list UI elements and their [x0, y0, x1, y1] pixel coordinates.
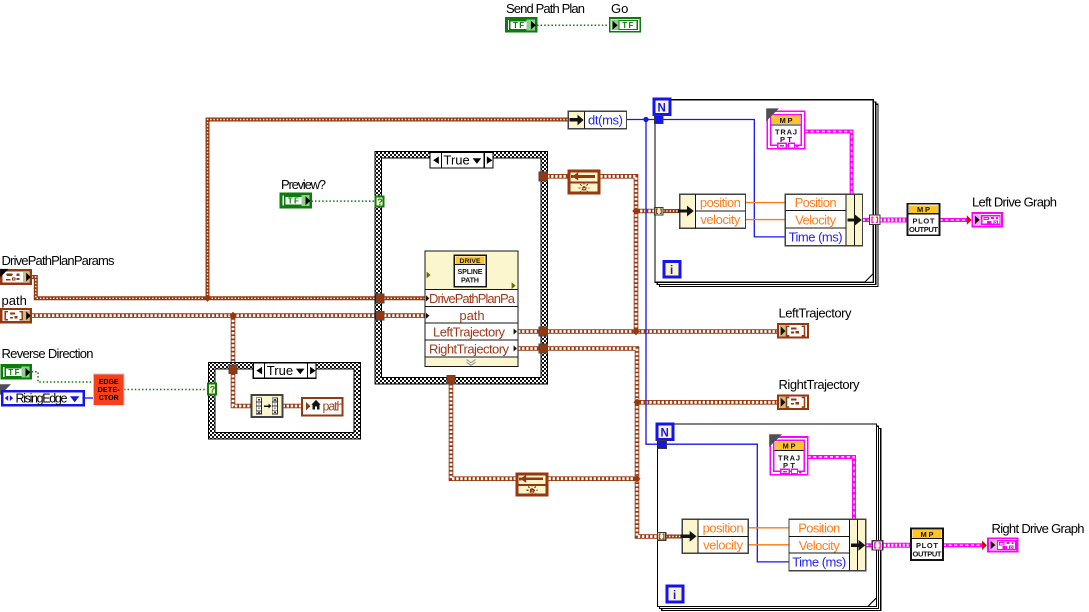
wire arrowhead at Right Drive Graph — [982, 541, 987, 551]
wire array of cluster top loop to PLOT OUTPUT (pink hatched) — [880, 218, 908, 223]
wire boolean dotted SendPathPlan to Go — [537, 24, 609, 26]
tunnel auto-index left (top loop) — [655, 207, 663, 215]
case selector terminal ? (small) — [208, 384, 216, 395]
svg-text:PATH: PATH — [461, 276, 479, 285]
wire arrowhead at Left Drive Graph — [967, 215, 972, 225]
wire typedef cluster TRAJ PT to bundle bottom — [808, 457, 854, 519]
case structure (small, True) border — [209, 363, 361, 440]
svg-text:OUTPUT: OUTPUT — [913, 550, 942, 559]
wire boolean edge detector to small case selector — [124, 389, 208, 391]
wire int branch down to bottom loop — [646, 120, 789, 562]
wire path branch down to small case — [231, 316, 236, 369]
wire cluster inside case DrivePathPlanParams to subVI — [384, 296, 425, 300]
local variable path — [302, 398, 344, 416]
wire float position top — [746, 202, 786, 204]
svg-text:TRAJ: TRAJ — [778, 453, 800, 462]
svg-text:Right Drive Graph: Right Drive Graph — [992, 521, 1085, 536]
array indicator RightTrajectory — [778, 395, 808, 409]
for loop bottom folded corner — [868, 598, 876, 606]
boolean control Reverse Direction — [2, 365, 31, 378]
subVI icon band arrows — [427, 272, 431, 279]
wire cluster bundle bottom to loop tunnel — [866, 543, 874, 547]
junction RightTrajectory wire at feedback branch — [633, 475, 640, 482]
svg-text:velocity: velocity — [700, 212, 741, 227]
wire float position bottom — [748, 527, 789, 529]
typedef constant MP TRAJ PT (bottom) — [769, 434, 807, 474]
wire reverse array to path local variable — [283, 404, 302, 409]
junction RightTrajectory wire at indicator branch — [633, 399, 640, 406]
svg-text:RightTrajectory: RightTrajectory — [779, 377, 861, 392]
svg-text:Send Path Plan: Send Path Plan — [506, 1, 585, 16]
SECTION: wires — [32, 25, 987, 562]
wire array RightTrajectory out of case down to bottom loop — [547, 349, 658, 537]
feedback node 1 — [568, 171, 600, 194]
count terminal N (bottom loop) — [657, 424, 673, 440]
wire array inside case path to subVI — [384, 313, 425, 318]
tunnel case bottom (feedback 2) — [447, 375, 455, 384]
case structure (big, True) border — [375, 152, 548, 385]
svg-text:True: True — [444, 153, 470, 168]
junction LeftTrajectory wire at loop branch — [632, 207, 639, 214]
svg-text:CTOR: CTOR — [99, 395, 119, 402]
tunnel case right top (feedback) — [539, 172, 547, 181]
junction path wire — [229, 312, 236, 319]
for loop bottom border (stacked frames) — [658, 424, 881, 611]
svg-text:Go: Go — [611, 1, 628, 16]
svg-text:TF: TF — [8, 368, 21, 377]
tunnel blue int (bottom loop) — [658, 440, 667, 448]
svg-text:DrivePathPlanParams: DrivePathPlanParams — [2, 253, 116, 268]
junction LeftTrajectory wire at indicator branch — [632, 328, 639, 335]
wire array subVI RightTrajectory to case tunnel — [518, 346, 540, 351]
iteration terminal i (top loop) — [664, 261, 680, 277]
cluster control DrivePathPlanParams — [0, 269, 31, 284]
wire cluster bundle top to loop tunnel — [862, 218, 870, 222]
subVI expand chevron — [467, 360, 476, 366]
svg-text:Preview?: Preview? — [281, 177, 326, 192]
wire array subVI LeftTrajectory to case tunnel — [518, 329, 540, 334]
svg-text:DETE-: DETE- — [98, 387, 121, 394]
svg-text:path: path — [323, 399, 344, 413]
wire array feedback node 2 output up into case bottom tunnel — [451, 376, 516, 479]
svg-text:N: N — [661, 428, 669, 440]
bundle by name (bottom loop) — [789, 519, 866, 570]
array control path — [1, 309, 30, 322]
tunnel case left path — [376, 311, 384, 320]
case selector label (small, True) — [253, 363, 316, 378]
subVI icon DRIVE SPLINE PATH — [454, 255, 486, 286]
subVI Drive Spline Path (expanded node) — [425, 251, 518, 366]
case selector label (big, True) — [430, 152, 493, 168]
typedef constant MP TRAJ PT (top) — [766, 108, 804, 148]
svg-text:Reverse Direction: Reverse Direction — [2, 346, 94, 361]
wire array LeftTrajectory out of case to indicator — [547, 329, 777, 334]
svg-text:Time (ms): Time (ms) — [789, 230, 843, 245]
svg-text:dt(ms): dt(ms) — [588, 113, 623, 128]
unbundle by name (bottom loop) — [681, 519, 749, 553]
svg-text:?: ? — [377, 197, 383, 207]
svg-text:path: path — [2, 293, 27, 308]
reverse 1D array function — [252, 395, 283, 417]
svg-text:RisingEdge: RisingEdge — [16, 391, 68, 405]
svg-text:OUTPUT: OUTPUT — [909, 225, 938, 234]
subVI row DrivePathPlanParams — [426, 295, 429, 301]
tunnel auto-index right (bottom loop) — [872, 541, 883, 550]
boolean control Send Path Plan — [506, 18, 536, 31]
wire path array (hatched) to case tunnel — [32, 313, 377, 318]
svg-text:DRIVE: DRIVE — [460, 258, 481, 265]
svg-text:N: N — [658, 103, 666, 115]
subVI row path — [426, 313, 429, 319]
svg-text:TF: TF — [288, 197, 301, 206]
svg-text:TF: TF — [622, 21, 635, 30]
wire array branch into top loop tunnel — [636, 209, 655, 214]
svg-text:EDGE: EDGE — [99, 379, 119, 386]
svg-text:position: position — [703, 521, 744, 536]
wire cluster bottom loop tunnel to unbundle — [666, 535, 684, 539]
iteration terminal i (bottom loop) — [667, 586, 683, 602]
svg-text:position: position — [700, 195, 741, 210]
svg-text:RightTrajectory: RightTrajectory — [429, 342, 510, 357]
wire float velocity top — [746, 219, 786, 221]
svg-text:TRAJ: TRAJ — [775, 128, 797, 137]
unbundle by name (top loop) — [678, 194, 746, 228]
feedback node 2 — [516, 474, 548, 496]
svg-text:Velocity: Velocity — [795, 213, 837, 228]
for loop top folded corner — [865, 274, 873, 282]
wire boolean Preview? to case selector — [311, 200, 375, 202]
svg-text:i: i — [673, 590, 676, 602]
wire DrivePathPlanParams cluster (dotted brown) to case tunnel — [32, 277, 377, 298]
svg-text:True: True — [267, 363, 293, 378]
subVI row LeftTrajectory — [514, 329, 517, 335]
array indicator LeftTrajectory — [778, 324, 808, 338]
wire array of cluster bottom loop to PLOT OUTPUT — [880, 543, 911, 548]
tunnel small case top (path in) — [229, 365, 237, 373]
svg-text:i: i — [670, 265, 673, 277]
svg-text:Position: Position — [795, 195, 837, 210]
wire int dt(ms) to loops (blue) — [627, 120, 786, 237]
bundle by name (top loop) — [785, 194, 862, 245]
graph indicator Left Drive Graph — [972, 213, 1002, 226]
svg-text:TF: TF — [513, 21, 526, 30]
wire cluster PLOT OUTPUT to Right Drive Graph — [943, 543, 983, 547]
tunnel case right LeftTrajectory — [539, 327, 547, 336]
tunnel case right RightTrajectory — [539, 344, 547, 353]
svg-text:DrivePathPlanPa: DrivePathPlanPa — [429, 291, 516, 306]
wire inside small case to reverse array — [233, 371, 252, 406]
tunnel case left DrivePathPlanParams — [376, 294, 384, 303]
svg-text:Left Drive Graph: Left Drive Graph — [972, 194, 1057, 209]
svg-text:Time (ms): Time (ms) — [792, 555, 846, 570]
tunnel blue int (top loop) — [655, 115, 664, 123]
edge detector VI icon — [94, 374, 125, 405]
wire DrivePathPlanParams branch up to dt(ms) — [208, 120, 569, 299]
wire boolean Reverse Direction to edge detector — [32, 372, 94, 382]
boolean indicator Go — [610, 18, 640, 32]
unbundle dt(ms) — [568, 111, 626, 128]
VI icon MP PLOT OUTPUT (top) — [908, 204, 940, 236]
VI icon MP PLOT OUTPUT (bottom) — [911, 528, 943, 560]
wire array LeftTrajectory branch up to feedback node and top loop — [600, 176, 636, 331]
wire enum RisingEdge to edge detector — [85, 397, 94, 399]
tunnel auto-index left (bottom loop) — [658, 533, 666, 541]
wire array RightTrajectory branch to feedback node 2 — [548, 476, 637, 481]
svg-text:velocity: velocity — [703, 538, 744, 553]
graph indicator Right Drive Graph — [988, 538, 1018, 551]
wire array feedback node 1 output to case tunnel — [547, 174, 568, 179]
svg-text:LeftTrajectory: LeftTrajectory — [779, 306, 853, 321]
svg-text:Velocity: Velocity — [799, 538, 841, 553]
svg-text:path: path — [459, 308, 484, 323]
wire cluster PLOT OUTPUT to Left Drive Graph — [940, 218, 968, 222]
svg-text:LeftTrajectory: LeftTrajectory — [433, 325, 506, 340]
junction DrivePathPlanParams wire — [204, 295, 211, 302]
svg-text:Position: Position — [798, 521, 840, 536]
subVI row RightTrajectory — [514, 346, 517, 352]
count terminal N (top loop) — [654, 99, 670, 115]
wire typedef cluster TRAJ PT to bundle top (pink dashed) — [805, 132, 852, 195]
svg-text:?: ? — [210, 384, 216, 394]
wire cluster top loop tunnel to unbundle — [663, 209, 681, 213]
tunnel auto-index right (top loop) — [870, 215, 881, 224]
boolean control Preview? — [281, 194, 310, 207]
wire float velocity bottom — [748, 544, 789, 546]
case selector terminal ? (big) — [376, 197, 384, 207]
enum constant RisingEdge — [0, 384, 84, 405]
junction int wire — [643, 117, 648, 122]
wire array RightTrajectory branch to indicator — [637, 400, 777, 405]
for loop top border (stacked frames) — [655, 100, 878, 287]
